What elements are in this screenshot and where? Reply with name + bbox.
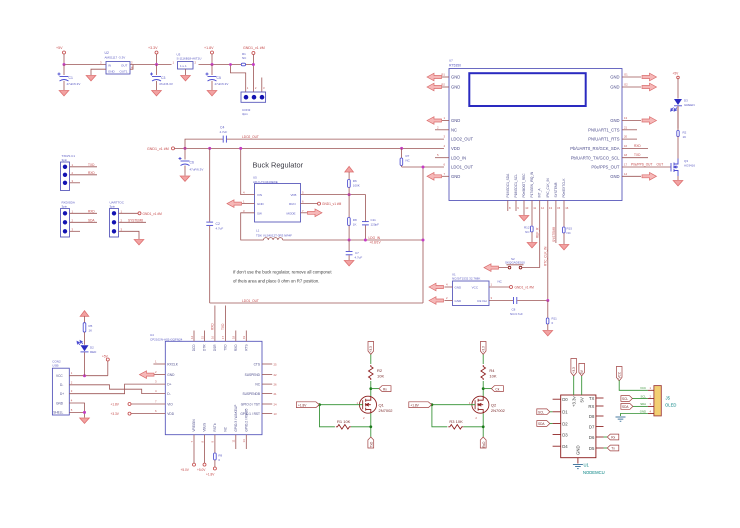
- svg-text:GND: GND: [451, 174, 460, 179]
- wire VCC pin1: [69, 371, 108, 377]
- wire CON3 pin3 stub: [261, 78, 263, 93]
- wire C8 to RTC line: [517, 300, 548, 302]
- svg-text:LDO2_OUT: LDO2_OUT: [451, 137, 474, 142]
- pin VDD 4 left: [444, 144, 460, 151]
- svg-text:Pb/UART0_RX/GCK_SDA: Pb/UART0_RX/GCK_SDA: [570, 146, 619, 151]
- svg-text:16: 16: [624, 144, 628, 148]
- wire CON5 pin3 stub: [70, 227, 81, 231]
- svg-text:OUT: OUT: [121, 64, 128, 68]
- wire D- crossover: [69, 380, 165, 393]
- svg-text:SUSPEND: SUSPEND: [245, 373, 261, 377]
- svg-text:GND: GND: [610, 75, 619, 80]
- svg-text:P0e/BOOT_REC: P0e/BOOT_REC: [522, 173, 526, 198]
- ground R11: [543, 331, 553, 336]
- ground J5: [616, 417, 626, 421]
- svg-text:R2: R2: [683, 131, 687, 135]
- svg-text:P0e/PPS_OUT: P0e/PPS_OUT: [591, 165, 620, 170]
- svg-text:VIO: VIO: [167, 402, 173, 406]
- svg-text:SUSPENDB: SUSPENDB: [242, 392, 260, 396]
- svg-text:120pF: 120pF: [371, 223, 380, 227]
- svg-text:14: 14: [242, 439, 246, 443]
- resistor R1 NC (in rail): [241, 52, 247, 66]
- svg-text:10K: 10K: [377, 374, 384, 379]
- svg-text:C5: C5: [217, 76, 221, 80]
- wire X1 VCC to terminal: [489, 286, 534, 290]
- wire +5V drop: [63, 54, 65, 65]
- svg-text:GND: GND: [455, 299, 463, 303]
- svg-text:VFB: VFB: [291, 193, 297, 197]
- wire Q1 source down: [370, 413, 372, 437]
- label tag RxD (vertical): [480, 437, 486, 448]
- svg-text:Clk Out: Clk Out: [477, 299, 487, 303]
- svg-text:TDK VLS4012T-3R3 NR4F: TDK VLS4012T-3R3 NR4F: [256, 234, 292, 238]
- capacitor C7 4.7uF: [346, 240, 363, 260]
- pin X1 GND4: [445, 286, 453, 288]
- svg-text:B1: B1: [442, 73, 446, 77]
- svg-text:D-: D-: [167, 392, 170, 396]
- svg-text:NC: NC: [224, 426, 228, 431]
- svg-text:13: 13: [624, 116, 628, 120]
- transistor Q1 2N7002: [357, 396, 394, 420]
- svg-text:13: 13: [549, 206, 553, 210]
- wire +1.8V drop: [211, 54, 213, 65]
- svg-text:C6: C6: [190, 161, 194, 165]
- svg-text:LDO1_OUT: LDO1_OUT: [242, 299, 259, 303]
- pin D7: [589, 424, 604, 429]
- svg-text:D4: D4: [562, 444, 568, 449]
- svg-text:GND1_v1 #M: GND1_v1 #M: [147, 147, 169, 151]
- svg-text:D2: D2: [90, 346, 94, 350]
- pin GND 13 right: [610, 116, 641, 123]
- capacitor C8 NC/4.7uF: [510, 297, 523, 316]
- LED D2 RED: [77, 341, 97, 376]
- svg-text:of theis area and place 0 ohm: of theis area and place 0 ohm on R7 posi…: [233, 279, 319, 284]
- svg-text:D3: D3: [562, 432, 568, 437]
- svg-text:+1.8V: +1.8V: [111, 403, 120, 407]
- node +5V terminal: [63, 51, 66, 54]
- svg-text:USB: USB: [52, 364, 58, 368]
- svg-text:D5: D5: [589, 446, 595, 451]
- svg-text:NC/4.7uF: NC/4.7uF: [510, 312, 523, 316]
- svg-text:SCL: SCL: [622, 397, 628, 401]
- ground under U3: [181, 76, 191, 81]
- svg-text:CP2102N-A02-GQFN24: CP2102N-A02-GQFN24: [150, 337, 183, 341]
- svg-text:GND1_v1 #M: GND1_v1 #M: [322, 202, 342, 206]
- ground CON6: [134, 240, 144, 245]
- svg-text:G1: G1: [624, 73, 628, 77]
- pin J5-3: [640, 402, 654, 406]
- node GND1_v1 terminal: [252, 52, 255, 55]
- transistor Q2 2N7002: [469, 396, 506, 420]
- wire CON5 pin1: [70, 209, 98, 213]
- svg-text:VBUS: VBUS: [203, 423, 207, 432]
- svg-text:13: 13: [274, 412, 278, 416]
- svg-text:TXD: TXD: [88, 163, 95, 167]
- svg-text:D+: D+: [60, 392, 64, 396]
- svg-text:C4: C4: [220, 126, 224, 130]
- junction RTC node: [546, 299, 549, 302]
- junction gate node: [318, 403, 321, 406]
- ground under C6: [180, 176, 190, 181]
- svg-text:22: 22: [274, 373, 278, 377]
- svg-text:SCL: SCL: [641, 394, 647, 398]
- svg-text:U7: U7: [449, 59, 453, 63]
- svg-text:17: 17: [624, 163, 628, 167]
- svg-text:47uF/6.3V: 47uF/6.3V: [215, 82, 229, 86]
- gnd flag pin1: [427, 117, 442, 125]
- svg-text:+3.3V: +3.3V: [148, 46, 158, 50]
- svg-text:+3.3v: +3.3v: [571, 396, 576, 407]
- wire U5 VFB feedback: [301, 195, 366, 240]
- pin D6 + Rx tag: [589, 434, 619, 440]
- label tag Rx: [379, 386, 391, 392]
- pin GND 1 left: [442, 116, 460, 123]
- pin GND 2: [153, 370, 175, 377]
- svg-text:Q2: Q2: [491, 403, 497, 408]
- wire C6 branch: [184, 148, 186, 159]
- wire U2 GND pin: [91, 69, 106, 75]
- connector CON3: [241, 86, 266, 116]
- svg-text:INT_A: INT_A: [538, 188, 542, 198]
- svg-text:RSTb: RSTb: [213, 423, 217, 431]
- wire CON4 pin3 stub: [70, 179, 81, 183]
- svg-text:Q1: Q1: [379, 403, 385, 408]
- resistor R3 10K (zigzag): [448, 419, 463, 429]
- ground under U2: [86, 76, 96, 81]
- svg-text:U2: U2: [105, 51, 109, 55]
- pin GND G2 right: [610, 83, 641, 90]
- resistor R9 0 on RSTb: [206, 435, 223, 477]
- svg-text:OLED: OLED: [665, 403, 676, 408]
- svg-text:TXD: TXD: [224, 344, 228, 351]
- pin D- 4: [155, 389, 171, 396]
- svg-text:TXD: TXD: [634, 153, 641, 157]
- svg-text:GND: GND: [167, 373, 175, 377]
- svg-text:D2: D2: [562, 421, 568, 426]
- wire U3 gnd stub: [185, 69, 187, 75]
- ground under C7: [344, 261, 354, 266]
- svg-text:AO3416: AO3416: [684, 164, 695, 168]
- svg-text:+3.3: +3.3: [572, 367, 576, 374]
- wire output node rail: [283, 239, 423, 241]
- wire A LDO2_OUT top rail: [185, 139, 444, 148]
- capacitor C1: [58, 73, 81, 91]
- svg-text:TXD: TXD: [221, 323, 225, 330]
- svg-text:D-: D-: [60, 383, 63, 387]
- junction rail / CON3 pin1 jog: [231, 65, 246, 93]
- capacitor C4 (series): [220, 126, 228, 143]
- junction C6 branch: [184, 147, 187, 150]
- svg-text:SKQGADE010: SKQGADE010: [505, 260, 525, 264]
- svg-text:C3: C3: [161, 76, 165, 80]
- wire LDO1_OUT bottom rail: [210, 302, 423, 304]
- svg-text:U5: U5: [253, 176, 257, 180]
- gnd flag pin13: [642, 117, 657, 125]
- label tag SDA: [621, 404, 648, 410]
- resistor R2 10K (zigzag): [368, 365, 384, 380]
- svg-text:LDO2_OUT: LDO2_OUT: [242, 135, 259, 139]
- gnd flag B1: [427, 73, 442, 81]
- svg-text:SYSTEM8: SYSTEM8: [554, 182, 558, 197]
- pin RX: [588, 404, 603, 409]
- ground CON2: [80, 418, 90, 423]
- svg-text:GPIO.2 / RS485: GPIO.2 / RS485: [245, 408, 249, 431]
- svg-text:NODEMCU: NODEMCU: [583, 470, 605, 475]
- bottom stub VBUS to +5.0V: [197, 435, 206, 472]
- power tag VCC above (vertical): [616, 367, 622, 381]
- svg-text:Pb/UART0_TX/GCO_SCL: Pb/UART0_TX/GCO_SCL: [571, 155, 620, 160]
- wire right leg: [422, 167, 424, 303]
- svg-text:DSR: DSR: [213, 344, 217, 351]
- wire GND+SHELL to ground: [69, 399, 86, 418]
- net GND1_v1 input label: [147, 147, 175, 151]
- wire gate Q1: [320, 404, 363, 406]
- svg-text:R15: R15: [567, 227, 573, 231]
- net label LDO_IN: [369, 236, 382, 245]
- net GND1_v1 label: [243, 46, 265, 92]
- gnd flag pin7: [427, 173, 442, 181]
- svg-text:RXD: RXD: [88, 209, 95, 213]
- wire to +5V terminal: [102, 355, 109, 376]
- svg-text:+5.0V: +5.0V: [197, 468, 206, 472]
- svg-text:14: 14: [190, 335, 194, 339]
- wire U5 MODE stub: [301, 212, 315, 214]
- svg-text:P18/GDC1_SCL: P18/GDC1_SCL: [514, 174, 518, 198]
- svg-text:VCC: VCC: [640, 386, 646, 390]
- svg-text:D7: D7: [589, 424, 595, 429]
- net +5V label: [673, 72, 680, 99]
- wire DSR/RXD up + net label RXD: [210, 306, 215, 342]
- svg-text:+1.8V: +1.8V: [410, 403, 419, 407]
- pin J5-2: [641, 394, 654, 398]
- svg-text:RXD: RXD: [88, 171, 95, 175]
- resistor R11 0: [546, 301, 557, 331]
- connector CON6 UARTTOC: [110, 201, 125, 238]
- svg-text:3pin: 3pin: [62, 158, 68, 162]
- gnd flag pin2: [140, 371, 155, 379]
- pin D0: [553, 397, 569, 402]
- svg-text:GND1_v1 #M: GND1_v1 #M: [243, 46, 265, 50]
- junction at C1: [63, 63, 66, 66]
- svg-text:R2: R2: [377, 368, 383, 373]
- bottom pin names (vertical): [506, 171, 566, 198]
- net +3.3V label: [148, 46, 158, 66]
- svg-text:GND: GND: [56, 401, 64, 405]
- gnd flag G1: [642, 73, 657, 81]
- svg-text:LDO1_OUT: LDO1_OUT: [451, 165, 474, 170]
- svg-text:2N7002: 2N7002: [491, 408, 506, 413]
- svg-text:+3.3V: +3.3V: [111, 412, 120, 416]
- regulator U2 AMS1117-3.3V: [100, 51, 133, 74]
- inductor L1: [256, 229, 292, 241]
- svg-text:NC/SiT1532 32.768K: NC/SiT1532 32.768K: [452, 277, 480, 281]
- svg-text:47uF/6.3V: 47uF/6.3V: [159, 82, 173, 86]
- svg-text:AMS1117 -3.3V: AMS1117 -3.3V: [105, 56, 126, 60]
- svg-text:+1.8V: +1.8V: [298, 403, 307, 407]
- ground under C1: [59, 91, 69, 96]
- ground NodeMCU: [573, 465, 583, 469]
- pin GND 7 left: [442, 172, 460, 179]
- wire CON6 pin2 SYSTEM8: [119, 218, 147, 222]
- ground Q3: [673, 181, 683, 186]
- svg-text:11: 11: [232, 439, 236, 442]
- svg-text:VCC: VCC: [618, 371, 622, 378]
- IC U4 CP2102N body: [150, 333, 262, 435]
- svg-text:SYSTEM8: SYSTEM8: [552, 227, 556, 242]
- svg-text:VCC: VCC: [472, 285, 479, 289]
- svg-text:+1.8V: +1.8V: [204, 46, 214, 50]
- svg-text:VREGIN: VREGIN: [192, 419, 196, 432]
- svg-text:LDO_IN: LDO_IN: [369, 236, 381, 240]
- op-amp U5 LTC3440: [243, 176, 304, 223]
- svg-text:MODE: MODE: [287, 211, 296, 215]
- svg-text:GND: GND: [451, 118, 460, 123]
- svg-text:GND: GND: [610, 118, 619, 123]
- power tag +3.3 above (vertical): [571, 359, 577, 408]
- svg-text:D1: D1: [562, 410, 568, 415]
- svg-text:OUT1: OUT1: [120, 70, 128, 74]
- resistor R4 10K (zigzag): [481, 365, 497, 380]
- svg-text:19: 19: [242, 335, 246, 339]
- svg-text:C7: C7: [355, 251, 359, 255]
- svg-text:NC: NC: [451, 127, 457, 132]
- bottom pin names (vertical): [192, 405, 248, 432]
- power arrow above R6: [345, 166, 354, 172]
- capacitor C5: [206, 73, 229, 91]
- wire U2 OUT pins join: [130, 65, 133, 70]
- svg-text:GND: GND: [108, 70, 116, 74]
- svg-text:SDA: SDA: [88, 218, 95, 222]
- module U7 RT5350 body: [449, 59, 622, 201]
- pin PPS_OUT 17 right / wire to Q3 gate: [591, 163, 671, 170]
- svg-text:RUN: RUN: [289, 202, 296, 206]
- svg-text:GND: GND: [640, 409, 646, 413]
- svg-text:J5: J5: [666, 396, 671, 401]
- wire R7 to LDO1_OUT pin: [402, 166, 444, 168]
- svg-text:PN/UART1_CTS: PN/UART1_CTS: [588, 127, 620, 132]
- svg-text:RXCLK: RXCLK: [167, 362, 179, 366]
- node input terminal: [172, 147, 175, 150]
- svg-text:RxD: RxD: [482, 441, 486, 448]
- wire C5 branch: [211, 65, 213, 76]
- svg-text:RXD: RXD: [210, 323, 214, 330]
- svg-text:R12: R12: [524, 226, 530, 230]
- power tag +1.8V: [409, 402, 432, 408]
- bottom stub GPIO.3: [232, 435, 236, 449]
- pin UART1_CTS 21 right: [588, 125, 637, 132]
- svg-text:P0e/PPS_OUT: P0e/PPS_OUT: [631, 163, 652, 167]
- svg-text:GPIO.3 / WAKEUP: GPIO.3 / WAKEUP: [234, 405, 238, 432]
- pin LDO2_OUT 3 left: [444, 135, 474, 142]
- pin D8: [589, 414, 604, 419]
- wire R2 to junction: [370, 381, 372, 397]
- crystal X1 SiT1532: [446, 273, 503, 306]
- wire Q2 source down: [482, 413, 484, 437]
- bottom stub VREGIN to +5.0V: [181, 435, 196, 472]
- svg-text:VDD: VDD: [451, 146, 460, 151]
- transistor Q3 AO3416: [671, 159, 695, 181]
- svg-text:GND: GND: [451, 85, 460, 90]
- svg-text:20: 20: [624, 135, 628, 139]
- svg-text:RXD: RXD: [234, 344, 238, 351]
- pin GND 14 right: [610, 172, 641, 179]
- resistor R12 NC: [524, 226, 533, 243]
- svg-text:P0e/EXTCLK: P0e/EXTCLK: [562, 178, 566, 198]
- wire U5 SW down to inductor: [241, 213, 264, 240]
- svg-text:1K: 1K: [89, 329, 93, 333]
- svg-text:R7: R7: [406, 154, 410, 158]
- ground R15: [559, 245, 569, 250]
- wire tag to R4: [482, 355, 484, 365]
- gnd flag switch left: [484, 264, 499, 272]
- svg-text:11: 11: [533, 206, 536, 210]
- svg-text:+5V: +5V: [102, 355, 109, 359]
- wire R4 to junction: [482, 381, 484, 397]
- pin GND bottom: [576, 445, 581, 463]
- resistor R1 10K (zigzag): [336, 419, 351, 429]
- resistor R5 1K: [83, 316, 92, 344]
- svg-text:TxD: TxD: [370, 441, 374, 448]
- connector CON5 RXD/SDA: [61, 201, 75, 238]
- power tag +1.8V: [296, 402, 319, 408]
- resistor R6 100K: [348, 172, 360, 195]
- junction node Rx: [369, 387, 372, 390]
- label tag Ck: [491, 386, 503, 392]
- svg-text:10: 10: [525, 206, 529, 210]
- svg-text:C1: C1: [69, 76, 73, 80]
- ground under C3: [152, 91, 162, 96]
- svg-text:GND: GND: [610, 174, 619, 179]
- svg-text:RXD: RXD: [634, 144, 641, 148]
- svg-text:IN: IN: [108, 64, 111, 68]
- capacitor C6: [179, 157, 204, 176]
- svg-text:SYSTEM8: SYSTEM8: [128, 218, 143, 222]
- svg-text:16: 16: [565, 206, 569, 210]
- svg-text:TX: TX: [589, 396, 595, 401]
- wire D+ crossover: [69, 384, 165, 394]
- svg-text:SDA: SDA: [538, 422, 545, 426]
- svg-text:GREEN: GREEN: [684, 103, 695, 107]
- resistor R2b 1K: [677, 106, 687, 158]
- pin RI/CLK 1: [153, 360, 178, 367]
- net +5V label: [56, 46, 66, 65]
- svg-text:+1.8V: +1.8V: [206, 473, 215, 477]
- svg-text:CTS: CTS: [254, 362, 260, 366]
- svg-text:D3: D3: [684, 99, 688, 103]
- svg-text:S-1116B18-A6T2U: S-1116B18-A6T2U: [177, 57, 202, 61]
- svg-text:G2: G2: [624, 83, 628, 87]
- junction dots output: [348, 239, 351, 242]
- svg-text:D0: D0: [562, 397, 568, 402]
- svg-text:R6: R6: [353, 179, 357, 183]
- pin J5-1: [640, 386, 654, 390]
- pin VDD 6: [111, 409, 175, 416]
- svg-text:C2: C2: [216, 222, 220, 226]
- wire U5 GND pin: [242, 203, 255, 205]
- wire gate Q2: [432, 404, 475, 406]
- svg-text:GND1_v1 #M: GND1_v1 #M: [515, 286, 535, 290]
- right pins CTS/SUSPEND/NC/SUSPENDB/GPIO: [254, 362, 277, 366]
- pin LDO1_OUT 6 left: [444, 163, 474, 170]
- svg-text:L1: L1: [256, 229, 260, 233]
- wire main 5V/3.3V/1.8V rail: [64, 64, 253, 66]
- svg-text:1K: 1K: [353, 223, 357, 227]
- node +3.3V terminal: [155, 51, 158, 54]
- pin VIO 7: [111, 400, 174, 407]
- svg-text:R5: R5: [89, 324, 93, 328]
- svg-text:ADJ LTC3440EDE: ADJ LTC3440EDE: [253, 180, 278, 184]
- svg-text:C11: C11: [371, 218, 377, 222]
